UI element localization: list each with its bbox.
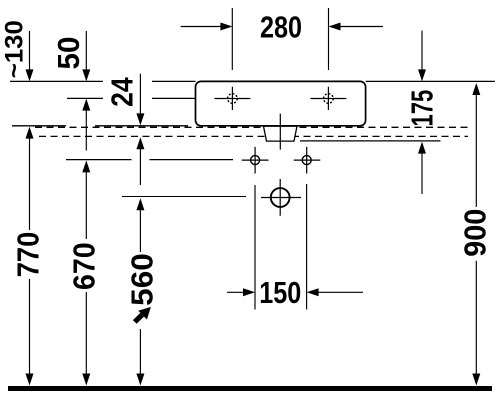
svg-text:670: 670 [67, 242, 102, 290]
svg-text:~130: ~130 [0, 20, 28, 78]
svg-text:770: 770 [11, 232, 46, 278]
svg-text:24: 24 [105, 77, 140, 107]
svg-text:50: 50 [51, 36, 86, 69]
svg-text:150: 150 [259, 275, 301, 310]
svg-text:900: 900 [458, 209, 493, 257]
svg-text:560: 560 [125, 253, 160, 306]
svg-text:175: 175 [405, 90, 440, 127]
svg-text:280: 280 [260, 10, 302, 45]
